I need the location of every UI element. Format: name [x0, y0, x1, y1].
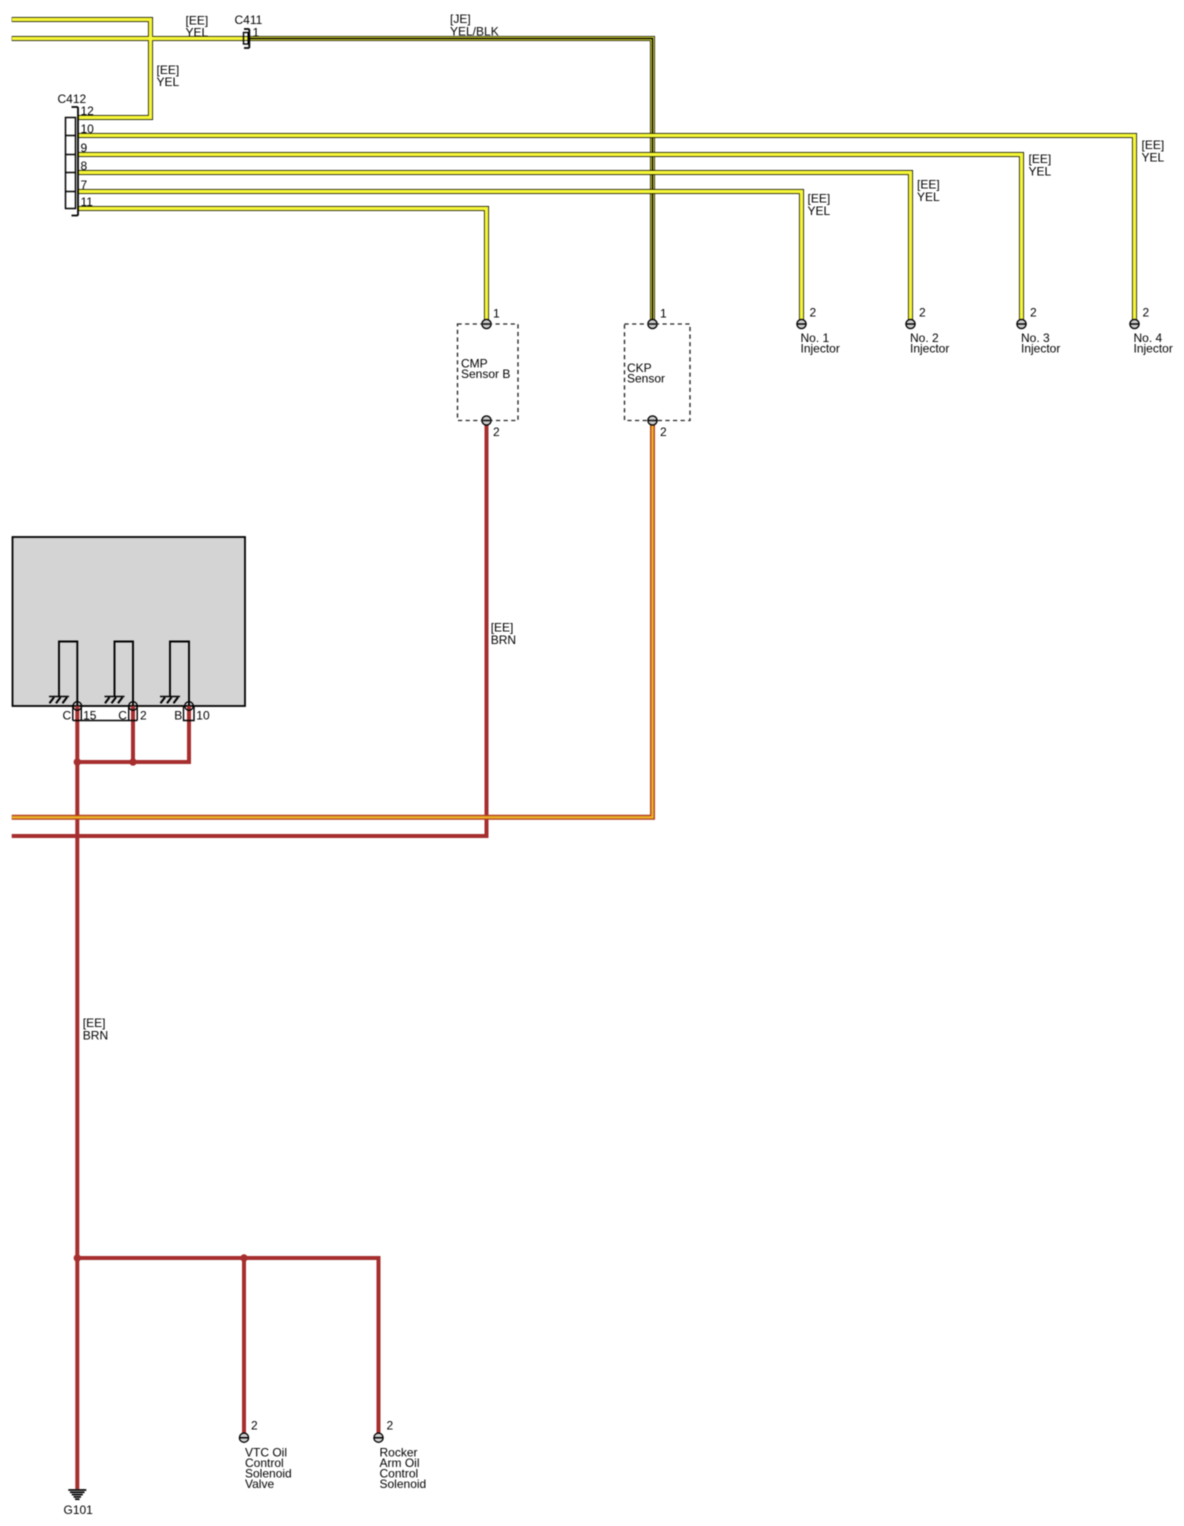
svg-text:2: 2 [387, 1419, 394, 1433]
svg-text:8: 8 [81, 159, 88, 173]
svg-text:2: 2 [810, 306, 817, 320]
svg-text:Injector: Injector [1134, 341, 1173, 355]
svg-text:2: 2 [919, 306, 926, 320]
svg-text:YEL/BLK: YEL/BLK [450, 25, 499, 39]
svg-text:Solenoid: Solenoid [380, 1477, 427, 1491]
svg-text:2: 2 [1030, 306, 1037, 320]
svg-text:2: 2 [251, 1419, 258, 1433]
svg-text:G101: G101 [64, 1503, 94, 1517]
svg-text:YEL: YEL [186, 26, 209, 40]
svg-text:1: 1 [493, 306, 500, 320]
svg-text:YEL: YEL [808, 204, 831, 218]
svg-text:Sensor B: Sensor B [461, 367, 510, 381]
svg-text:BRN: BRN [83, 1028, 108, 1042]
svg-text:Injector: Injector [910, 341, 949, 355]
svg-text:15: 15 [83, 709, 97, 723]
svg-text:C: C [118, 709, 127, 723]
svg-text:Injector: Injector [801, 341, 840, 355]
svg-text:9: 9 [81, 141, 88, 155]
svg-text:1: 1 [660, 306, 667, 320]
svg-text:11: 11 [81, 195, 94, 209]
svg-text:C: C [63, 709, 72, 723]
svg-text:BRN: BRN [491, 633, 516, 647]
svg-text:10: 10 [196, 709, 210, 723]
svg-text:2: 2 [660, 425, 667, 439]
svg-text:Valve: Valve [245, 1477, 274, 1491]
svg-text:YEL: YEL [1142, 151, 1165, 165]
svg-text:Injector: Injector [1021, 341, 1060, 355]
svg-text:2: 2 [1143, 306, 1150, 320]
svg-text:10: 10 [81, 122, 95, 136]
svg-text:B: B [174, 709, 182, 723]
svg-text:YEL: YEL [1029, 165, 1052, 179]
svg-text:Sensor: Sensor [627, 372, 665, 386]
svg-text:7: 7 [81, 178, 88, 192]
svg-text:12: 12 [81, 104, 95, 118]
svg-text:2: 2 [140, 709, 147, 723]
svg-text:2: 2 [493, 425, 500, 439]
svg-text:YEL: YEL [917, 190, 940, 204]
svg-text:YEL: YEL [157, 75, 180, 89]
svg-text:1: 1 [253, 26, 260, 40]
